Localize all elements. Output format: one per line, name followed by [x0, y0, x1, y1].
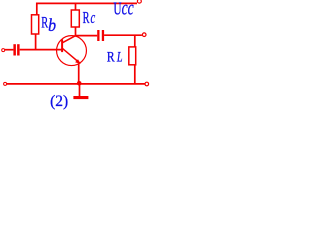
svg-text:U: U — [113, 0, 121, 19]
svg-text:c: c — [91, 9, 96, 28]
svg-text:R: R — [107, 48, 115, 65]
svg-text:b: b — [48, 15, 56, 35]
svg-text:R: R — [83, 8, 91, 26]
svg-text:cc: cc — [122, 0, 135, 19]
svg-text:L: L — [116, 49, 122, 65]
svg-text:(2): (2) — [50, 93, 68, 110]
